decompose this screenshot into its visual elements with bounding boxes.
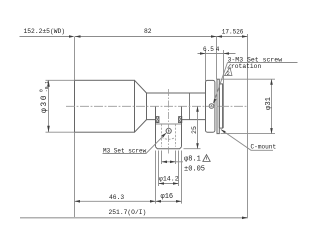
svg-text:251.7(O/I): 251.7(O/I) [109,209,147,216]
svg-text:152.2±5(WD): 152.2±5(WD) [24,28,66,35]
svg-text:-0.1: -0.1 [44,81,50,92]
svg-text:φ8.1: φ8.1 [184,155,201,163]
svg-text:M3 Set screw: M3 Set screw [103,148,147,155]
svg-text:46.3: 46.3 [109,194,124,201]
svg-text:17.526: 17.526 [222,28,244,35]
svg-text:±0.05: ±0.05 [184,166,205,174]
svg-text:2: 2 [227,71,230,77]
svg-text:φ16: φ16 [161,193,174,201]
svg-text:0: 0 [38,89,44,92]
svg-text:φ14.2: φ14.2 [159,175,179,182]
svg-text:rotation: rotation [231,63,261,70]
svg-text:φ31: φ31 [265,97,273,110]
svg-text:25: 25 [191,126,198,134]
svg-text:C-mount: C-mount [251,144,277,151]
svg-text:φ30: φ30 [40,94,49,113]
svg-text:4: 4 [216,46,220,53]
svg-text:6.5: 6.5 [203,46,214,53]
svg-text:82: 82 [144,28,152,35]
